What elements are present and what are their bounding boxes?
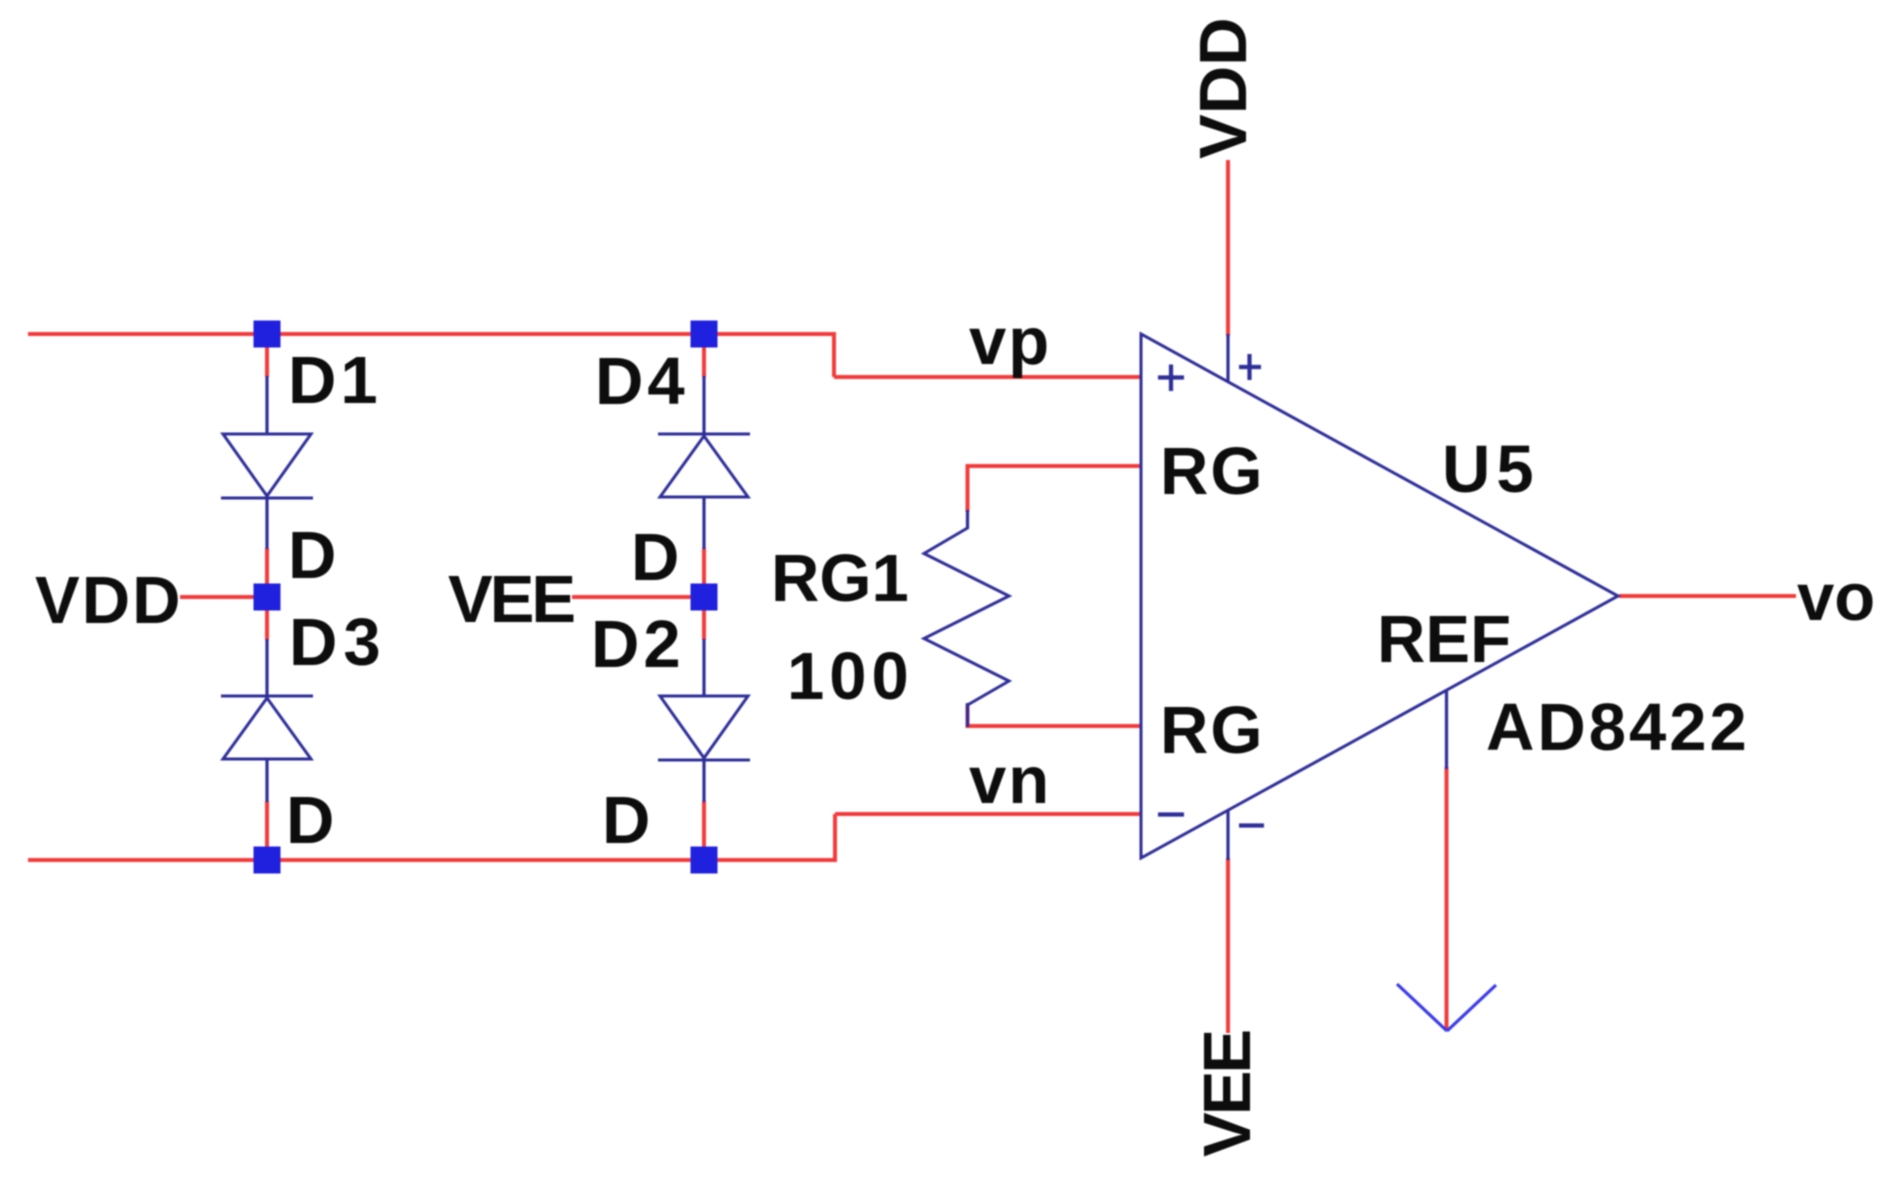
svg-text:D: D	[631, 520, 679, 595]
svg-text:vo: vo	[1797, 560, 1875, 635]
svg-text:VDD: VDD	[1186, 18, 1261, 159]
svg-text:vn: vn	[969, 743, 1051, 818]
svg-text:vp: vp	[969, 304, 1051, 379]
svg-text:D3: D3	[289, 605, 387, 680]
svg-text:U5: U5	[1442, 432, 1540, 507]
svg-text:D: D	[602, 783, 650, 858]
svg-text:D: D	[288, 518, 336, 593]
svg-text:AD8422: AD8422	[1486, 690, 1750, 765]
svg-text:D: D	[286, 783, 334, 858]
svg-text:VEE: VEE	[448, 562, 574, 637]
svg-text:100: 100	[787, 639, 914, 714]
svg-text:RG: RG	[1160, 693, 1265, 768]
svg-text:RG1: RG1	[771, 541, 909, 616]
svg-text:RG: RG	[1160, 434, 1265, 509]
svg-text:D4: D4	[595, 344, 689, 419]
svg-text:VDD: VDD	[35, 563, 182, 638]
svg-text:D2: D2	[591, 607, 685, 682]
svg-text:REF: REF	[1377, 602, 1511, 677]
svg-text:VEE: VEE	[1190, 1031, 1265, 1157]
svg-text:D1: D1	[288, 343, 382, 418]
